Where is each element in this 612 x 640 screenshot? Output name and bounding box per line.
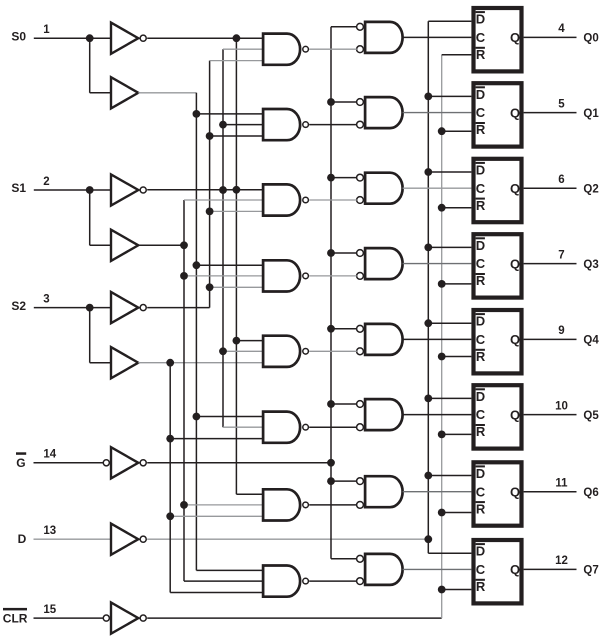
svg-text:2: 2 — [43, 176, 49, 188]
svg-text:C: C — [476, 181, 486, 196]
svg-text:Q: Q — [510, 407, 520, 422]
svg-text:6: 6 — [558, 174, 564, 186]
svg-text:D: D — [476, 466, 485, 481]
svg-text:14: 14 — [43, 449, 56, 461]
svg-text:Q: Q — [510, 105, 520, 120]
svg-text:10: 10 — [555, 400, 568, 412]
svg-text:D: D — [476, 389, 485, 404]
svg-text:Q2: Q2 — [583, 183, 598, 195]
svg-text:R: R — [476, 349, 486, 364]
svg-text:D: D — [18, 532, 27, 546]
svg-text:S0: S0 — [11, 29, 26, 43]
svg-text:R: R — [476, 424, 486, 439]
svg-text:D: D — [476, 12, 485, 27]
svg-text:Q: Q — [510, 562, 520, 577]
svg-text:CLR: CLR — [3, 612, 28, 626]
svg-text:15: 15 — [43, 604, 56, 616]
svg-text:5: 5 — [558, 98, 565, 110]
svg-text:4: 4 — [558, 23, 565, 35]
svg-text:C: C — [476, 484, 486, 499]
svg-text:R: R — [476, 47, 486, 62]
svg-text:7: 7 — [558, 249, 564, 261]
svg-text:D: D — [476, 314, 485, 329]
svg-text:R: R — [476, 273, 486, 288]
svg-text:C: C — [476, 332, 486, 347]
svg-text:3: 3 — [43, 293, 49, 305]
svg-text:Q: Q — [510, 30, 520, 45]
svg-text:R: R — [476, 122, 486, 137]
svg-text:S1: S1 — [11, 181, 26, 195]
svg-text:Q7: Q7 — [583, 565, 598, 577]
svg-text:C: C — [476, 30, 486, 45]
svg-text:G: G — [16, 456, 25, 470]
svg-text:C: C — [476, 105, 486, 120]
svg-text:Q: Q — [510, 485, 520, 500]
svg-text:Q: Q — [510, 256, 520, 271]
svg-text:Q6: Q6 — [583, 487, 598, 499]
svg-text:C: C — [476, 256, 486, 271]
svg-text:C: C — [476, 407, 486, 422]
svg-text:Q1: Q1 — [583, 108, 599, 120]
svg-text:R: R — [476, 198, 486, 213]
svg-text:12: 12 — [555, 555, 568, 567]
svg-text:Q4: Q4 — [583, 335, 599, 347]
svg-text:11: 11 — [555, 477, 568, 489]
svg-text:Q: Q — [510, 181, 520, 196]
svg-text:D: D — [476, 238, 485, 253]
svg-text:Q0: Q0 — [583, 33, 598, 45]
svg-text:Q3: Q3 — [583, 259, 598, 271]
svg-text:13: 13 — [43, 525, 56, 537]
svg-text:D: D — [476, 87, 485, 102]
svg-text:C: C — [476, 562, 486, 577]
svg-text:Q5: Q5 — [583, 410, 599, 422]
svg-text:D: D — [476, 162, 485, 177]
svg-text:D: D — [476, 544, 485, 559]
svg-text:Q: Q — [510, 332, 520, 347]
svg-text:1: 1 — [43, 24, 50, 36]
svg-text:R: R — [476, 501, 486, 516]
svg-text:9: 9 — [558, 325, 564, 337]
svg-text:S2: S2 — [11, 299, 26, 313]
svg-text:R: R — [476, 579, 486, 594]
